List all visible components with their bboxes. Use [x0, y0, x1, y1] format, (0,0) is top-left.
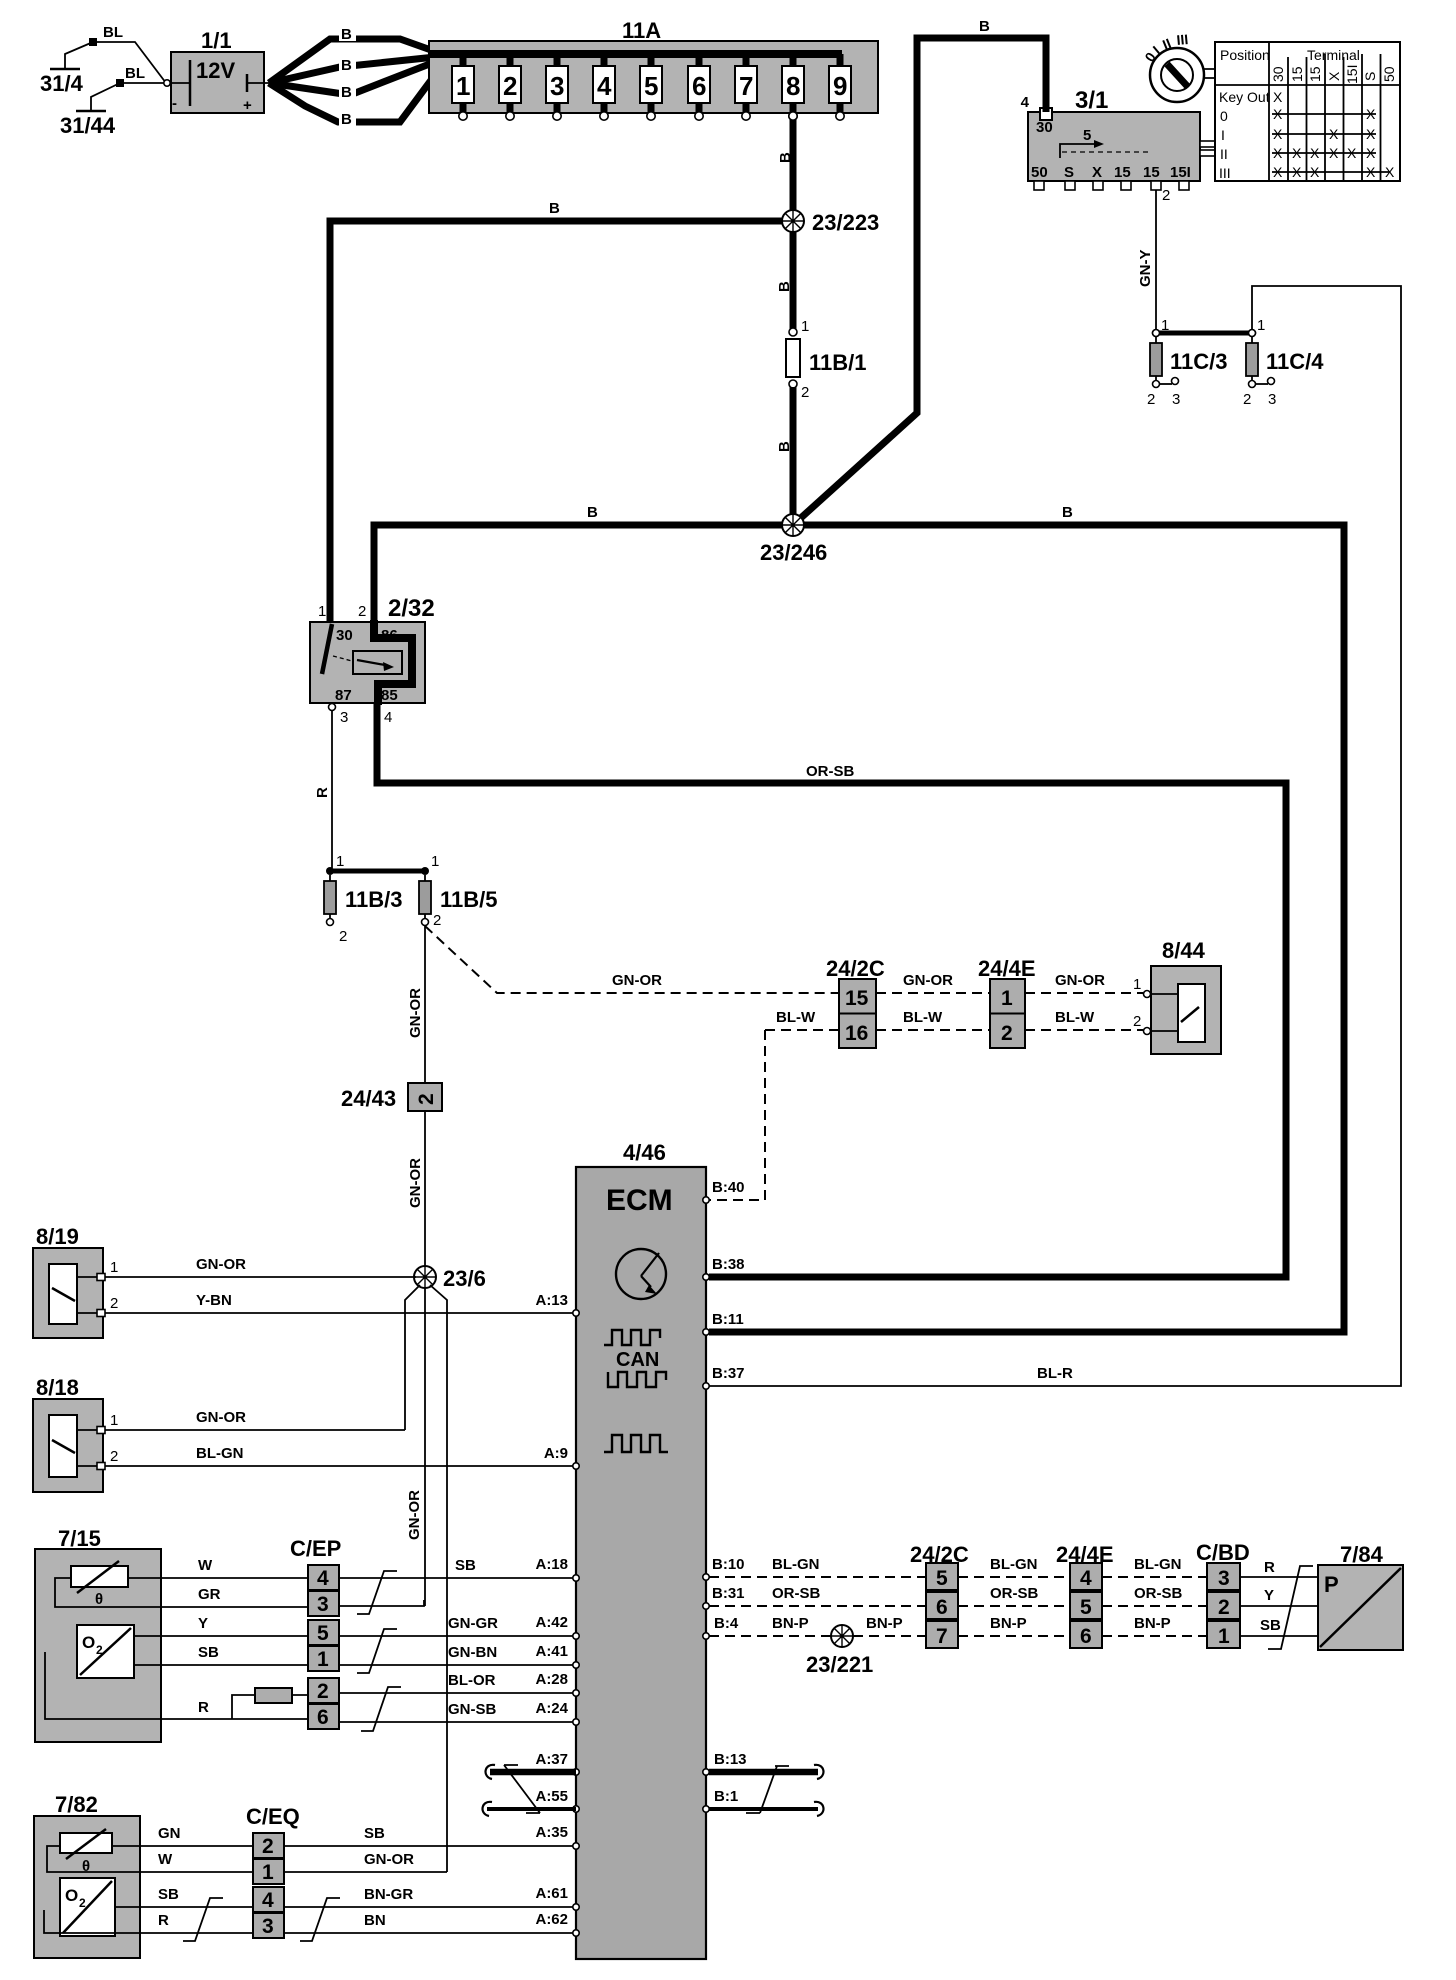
svg-text:6: 6 — [1080, 1625, 1092, 1648]
svg-text:7/84: 7/84 — [1340, 1542, 1384, 1567]
svg-text:9: 9 — [833, 71, 847, 101]
resistor bridge at C/EP 2 — [232, 1688, 308, 1719]
node 23/6 — [414, 1266, 436, 1288]
wire R to C/EP 6 — [161, 1718, 308, 1720]
svg-text:4: 4 — [262, 1889, 274, 1912]
svg-text:CAN: CAN — [616, 1349, 659, 1371]
relay coil winding path pin2 to pin4 — [374, 620, 412, 705]
connector C/BD (3/2/1) — [1196, 1540, 1250, 1648]
relay switch blade — [322, 624, 332, 674]
fuse 1 — [452, 54, 474, 120]
svg-text:A:13: A:13 — [535, 1292, 568, 1309]
svg-text:X: X — [1292, 145, 1302, 161]
wire OR-SB relay pin4 to ECM B:38 — [377, 704, 1286, 1277]
svg-text:85: 85 — [381, 687, 398, 704]
svg-text:1: 1 — [262, 1861, 274, 1884]
svg-text:4: 4 — [317, 1567, 329, 1590]
svg-text:X: X — [1329, 145, 1339, 161]
svg-text:B:37: B:37 — [712, 1365, 745, 1382]
svg-text:SB: SB — [455, 1557, 476, 1574]
svg-text:1: 1 — [110, 1259, 118, 1276]
svg-text:B:38: B:38 — [712, 1256, 745, 1273]
svg-text:15: 15 — [1307, 66, 1323, 82]
svg-text:GN-OR: GN-OR — [407, 988, 424, 1038]
svg-text:R: R — [314, 787, 331, 798]
wire bar 11B/3 to 11B/5 pin1 — [330, 869, 425, 874]
svg-text:X: X — [1326, 71, 1342, 81]
svg-text:Y: Y — [1264, 1587, 1274, 1604]
svg-text:BN-P: BN-P — [990, 1615, 1027, 1632]
svg-text:A:9: A:9 — [544, 1445, 568, 1462]
svg-text:23/6: 23/6 — [443, 1266, 486, 1291]
connector 24/2C (15/16) — [826, 956, 885, 1048]
svg-text:1: 1 — [318, 603, 326, 620]
svg-text:O: O — [65, 1886, 78, 1905]
svg-text:1: 1 — [431, 853, 439, 870]
svg-text:24/4E: 24/4E — [978, 956, 1036, 981]
svg-text:24/2C: 24/2C — [826, 956, 885, 981]
svg-text:BL-GN: BL-GN — [196, 1445, 244, 1462]
ECM pins A side — [573, 1310, 579, 1936]
position/terminal table — [1215, 42, 1400, 181]
wire Y-BN 8/19 pin2 to ECM A:13 — [105, 1312, 573, 1314]
svg-text:GN: GN — [158, 1825, 181, 1842]
svg-text:A:42: A:42 — [535, 1614, 568, 1631]
svg-text:2: 2 — [503, 71, 517, 101]
svg-text:BL: BL — [103, 24, 123, 41]
svg-text:GN-OR: GN-OR — [406, 1490, 423, 1540]
svg-text:16: 16 — [845, 1022, 868, 1045]
svg-text:GN-Y: GN-Y — [1137, 250, 1154, 288]
svg-text:4: 4 — [384, 709, 392, 726]
svg-text:θ: θ — [95, 1591, 103, 1608]
wire OR-SB dashed ECM B:31 to 24/2C 6 — [709, 1605, 926, 1607]
tabs to table — [1200, 141, 1215, 147]
wires C/BD to 7/84 — [1240, 1577, 1318, 1636]
node 23/223 — [782, 210, 804, 232]
svg-text:B: B — [776, 281, 793, 292]
svg-text:B:10: B:10 — [712, 1556, 745, 1573]
svg-text:Key Out: Key Out — [1219, 89, 1270, 105]
svg-text:11B/1: 11B/1 — [809, 350, 867, 375]
svg-text:X: X — [1385, 164, 1395, 180]
svg-text:III: III — [1176, 31, 1189, 48]
svg-text:OR-SB: OR-SB — [990, 1585, 1039, 1602]
svg-text:BN-P: BN-P — [772, 1615, 809, 1632]
wires dashed 24/4E to C/BD — [1102, 1577, 1207, 1636]
wire BL-W dashed down to ECM B:40 — [709, 1030, 765, 1200]
svg-text:A:35: A:35 — [535, 1824, 568, 1841]
3/1 terminal pins — [1034, 181, 1044, 190]
svg-text:0: 0 — [1220, 108, 1228, 124]
node 23/246 — [782, 514, 804, 536]
wire R to C/EQ 3 — [140, 1932, 253, 1934]
svg-text:W: W — [158, 1851, 173, 1868]
ECM 4/46 — [576, 1140, 706, 1959]
svg-text:3/1: 3/1 — [1075, 87, 1108, 114]
ignition switch 3/1 — [1021, 87, 1215, 190]
svg-text:30: 30 — [336, 627, 353, 644]
svg-text:SB: SB — [158, 1886, 179, 1903]
wire BL-W dashed row — [765, 1029, 839, 1031]
svg-text:X: X — [1310, 164, 1320, 180]
wire BL-R 11C/4 pin1 to ECM B:37 — [709, 286, 1401, 1386]
svg-text:C/EQ: C/EQ — [246, 1804, 300, 1829]
svg-text:BL-W: BL-W — [776, 1009, 816, 1026]
wires fanning below 23/6 — [405, 1285, 447, 1872]
svg-text:15I: 15I — [1344, 65, 1360, 84]
svg-text:12V: 12V — [196, 58, 235, 83]
svg-text:7: 7 — [739, 71, 753, 101]
svg-text:A:28: A:28 — [535, 1671, 568, 1688]
ECM CAN symbol — [604, 1330, 660, 1345]
svg-text:B: B — [587, 504, 598, 521]
wire GN-SB C/EP6 to ECM A:24 — [339, 1721, 573, 1723]
connector 24/2C (5/6/7) — [910, 1542, 969, 1648]
connector C/EQ — [246, 1804, 300, 1938]
svg-text:R: R — [1264, 1559, 1275, 1576]
svg-text:1: 1 — [317, 1648, 329, 1671]
svg-text:4: 4 — [597, 71, 612, 101]
svg-text:OR-SB: OR-SB — [772, 1585, 821, 1602]
svg-text:87: 87 — [335, 687, 352, 704]
svg-text:24/43: 24/43 — [341, 1086, 396, 1111]
wire GN-OR 11B/5 pin2 down to 24/43 and 23/6 — [424, 926, 426, 1268]
svg-text:2: 2 — [317, 1680, 329, 1703]
svg-text:A:41: A:41 — [535, 1643, 568, 1660]
pair break after C/EQ — [300, 1898, 340, 1941]
fuse 2 — [499, 54, 521, 120]
fuse 11C/4 — [1243, 317, 1324, 408]
svg-text:B: B — [1062, 504, 1073, 521]
svg-text:BL-W: BL-W — [903, 1009, 943, 1026]
svg-text:A:62: A:62 — [535, 1911, 568, 1928]
fuse 5 — [640, 54, 662, 120]
svg-text:6: 6 — [936, 1596, 948, 1619]
svg-text:BL-W: BL-W — [1055, 1009, 1095, 1026]
svg-text:II: II — [1220, 146, 1228, 162]
svg-text:B: B — [979, 18, 990, 35]
wire battery to fusebox (4 x B) — [269, 25, 446, 128]
svg-text:O: O — [82, 1633, 95, 1652]
svg-text:GN-OR: GN-OR — [196, 1256, 246, 1273]
svg-text:3: 3 — [550, 71, 564, 101]
fuse 9 — [829, 54, 851, 120]
svg-text:X: X — [1366, 106, 1376, 122]
7/15 O2 cell — [77, 1625, 134, 1678]
relay coil — [353, 651, 402, 674]
fuse 11C/3 — [1147, 317, 1228, 408]
svg-text:1: 1 — [1218, 1625, 1230, 1648]
svg-text:15I: 15I — [1170, 164, 1191, 181]
svg-text:2: 2 — [1133, 1013, 1141, 1030]
svg-text:GN-BN: GN-BN — [448, 1644, 497, 1661]
ground 31/4 — [40, 24, 166, 96]
wire SB C/EP4 to ECM A:18 — [339, 1577, 573, 1579]
svg-text:15: 15 — [1114, 164, 1131, 181]
svg-text:3: 3 — [317, 1593, 329, 1616]
wire GN-OR dashed 24/2C to 24/4E — [876, 992, 990, 994]
svg-text:1: 1 — [336, 853, 344, 870]
svg-text:1: 1 — [801, 318, 809, 335]
svg-text:BL-GN: BL-GN — [1134, 1556, 1182, 1573]
svg-text:7/82: 7/82 — [55, 1792, 98, 1817]
svg-text:2: 2 — [801, 384, 809, 401]
svg-text:1: 1 — [1133, 976, 1141, 993]
svg-text:5: 5 — [317, 1622, 329, 1645]
svg-text:Position: Position — [1220, 47, 1270, 63]
pair break before C/EQ — [183, 1898, 223, 1941]
svg-text:C/EP: C/EP — [290, 1536, 341, 1561]
pair break before 7/84 — [1268, 1566, 1313, 1649]
svg-text:1: 1 — [456, 71, 470, 101]
ECM clock symbol — [616, 1249, 666, 1299]
svg-text:B: B — [776, 441, 793, 452]
fuse 7 — [735, 54, 757, 120]
svg-text:X: X — [1329, 126, 1339, 142]
ECM pins B side — [703, 1197, 709, 1812]
svg-text:11B/5: 11B/5 — [440, 887, 498, 912]
svg-text:X: X — [1273, 89, 1283, 105]
svg-text:31/4: 31/4 — [40, 71, 84, 96]
svg-text:2: 2 — [262, 1835, 274, 1858]
svg-text:B:31: B:31 — [712, 1585, 745, 1602]
key symbol — [1141, 31, 1216, 102]
svg-text:-: - — [172, 95, 177, 112]
svg-text:A:61: A:61 — [535, 1885, 568, 1902]
relay 2/32 — [310, 595, 435, 726]
svg-text:6: 6 — [317, 1706, 329, 1729]
svg-text:X: X — [1310, 145, 1320, 161]
wire GN-OR dashed 11B/5 to 24/2C pin15 — [425, 926, 839, 993]
svg-text:GN-OR: GN-OR — [407, 1158, 424, 1208]
wire R relay pin3 to 11B/3 — [331, 711, 333, 868]
svg-text:2/32: 2/32 — [388, 595, 435, 622]
svg-text:BL-GN: BL-GN — [772, 1556, 820, 1573]
svg-text:BN-P: BN-P — [1134, 1615, 1171, 1632]
wire GN to C/EQ 2 — [140, 1845, 253, 1847]
svg-text:X: X — [1347, 145, 1357, 161]
wire GN-OR C/EQ1 up to 23/6 branch — [284, 1871, 447, 1873]
svg-text:A:24: A:24 — [535, 1700, 568, 1717]
svg-text:7/15: 7/15 — [58, 1526, 101, 1551]
svg-text:P: P — [1324, 1572, 1339, 1597]
svg-text:BN-GR: BN-GR — [364, 1886, 413, 1903]
svg-text:50: 50 — [1031, 164, 1048, 181]
wire BL-OR C/EP2 to ECM A:28 — [339, 1692, 573, 1694]
svg-text:2: 2 — [1218, 1596, 1230, 1619]
svg-text:2: 2 — [1243, 391, 1251, 408]
svg-text:11A: 11A — [622, 18, 661, 43]
svg-text:50: 50 — [1381, 66, 1397, 82]
svg-text:R: R — [198, 1699, 209, 1716]
svg-text:X: X — [1366, 145, 1376, 161]
fuse 6 — [688, 54, 710, 120]
svg-text:11C/3: 11C/3 — [1170, 349, 1228, 374]
wire B diagonal 23/246 up to 3/1 pin 4 — [793, 38, 1046, 525]
svg-text:BL-R: BL-R — [1037, 1365, 1073, 1382]
svg-text:GN-OR: GN-OR — [196, 1409, 246, 1426]
svg-text:GN-OR: GN-OR — [364, 1851, 414, 1868]
svg-text:4: 4 — [1080, 1567, 1092, 1590]
wire BL-GN 8/18 pin2 to ECM A:9 — [105, 1465, 573, 1467]
fuse 11B/5 — [419, 853, 498, 929]
fuse 11B/1 — [786, 318, 867, 401]
svg-text:5: 5 — [1083, 127, 1091, 144]
svg-text:3: 3 — [1218, 1567, 1230, 1590]
svg-text:X: X — [1273, 145, 1283, 161]
svg-text:B:4: B:4 — [714, 1615, 739, 1632]
svg-text:S: S — [1064, 164, 1074, 181]
svg-text:X: X — [1366, 126, 1376, 142]
svg-text:OR-SB: OR-SB — [806, 763, 855, 780]
svg-text:2: 2 — [79, 1896, 86, 1910]
sensor 8/19 — [33, 1224, 118, 1338]
svg-text:2: 2 — [110, 1295, 118, 1312]
svg-text:8/18: 8/18 — [36, 1375, 79, 1400]
svg-text:A:37: A:37 — [535, 1751, 568, 1768]
svg-text:1: 1 — [1001, 987, 1013, 1010]
svg-text:8: 8 — [786, 71, 800, 101]
svg-text:2: 2 — [415, 1093, 438, 1105]
bus bar — [429, 50, 842, 58]
wire GN-GR C/EP5 to ECM A:42 — [339, 1635, 573, 1637]
svg-text:X: X — [1273, 106, 1283, 122]
sensor 8/18 — [33, 1375, 118, 1492]
svg-text:S: S — [1362, 72, 1378, 81]
svg-text:8/44: 8/44 — [1162, 938, 1206, 963]
svg-text:BN-P: BN-P — [866, 1615, 903, 1632]
wire SB to C/EP 1 — [161, 1664, 308, 1666]
wire GN-OR C/EP3 up to 23/6 — [339, 1600, 424, 1606]
svg-text:3: 3 — [262, 1915, 274, 1938]
wire B horizontal to relay (node 23/223 to 2/32 pin1) — [330, 221, 793, 622]
wire B 11B/1 pin2 down to 23/246 — [790, 387, 797, 525]
svg-text:X: X — [1273, 126, 1283, 142]
svg-text:31/44: 31/44 — [60, 113, 116, 138]
heated oxygen sensor 7/82 — [34, 1792, 140, 1958]
svg-text:W: W — [198, 1557, 213, 1574]
svg-text:11B/3: 11B/3 — [345, 887, 403, 912]
svg-text:15: 15 — [1289, 66, 1305, 82]
svg-text:BL-GN: BL-GN — [990, 1556, 1038, 1573]
svg-text:GN-SB: GN-SB — [448, 1701, 497, 1718]
wire GN-Y from 3/1 pin 2 — [1137, 187, 1170, 330]
wire SB to C/EQ 4 — [140, 1906, 253, 1908]
svg-text:X: X — [1292, 164, 1302, 180]
svg-text:2: 2 — [1162, 187, 1170, 204]
svg-text:2: 2 — [96, 1643, 103, 1657]
svg-text:8/19: 8/19 — [36, 1224, 79, 1249]
fuel pump 7/84 — [1318, 1542, 1403, 1650]
svg-text:15: 15 — [845, 987, 869, 1010]
svg-text:3: 3 — [340, 709, 348, 726]
svg-text:OR-SB: OR-SB — [1134, 1585, 1183, 1602]
svg-text:B:13: B:13 — [714, 1751, 747, 1768]
svg-text:11C/4: 11C/4 — [1266, 349, 1324, 374]
svg-text:4/46: 4/46 — [623, 1140, 666, 1165]
svg-text:7: 7 — [936, 1625, 948, 1648]
wire GN-OR 8/19 pin1 to 23/6 — [105, 1276, 416, 1278]
svg-text:2: 2 — [110, 1448, 118, 1465]
svg-text:B:11: B:11 — [712, 1311, 744, 1328]
svg-text:5: 5 — [1080, 1596, 1092, 1619]
heated oxygen sensor 7/15 — [35, 1526, 161, 1742]
svg-text:2: 2 — [339, 928, 347, 945]
svg-text:B: B — [341, 84, 352, 101]
svg-text:Y-BN: Y-BN — [196, 1292, 232, 1309]
wire GR to C/EP 3 — [161, 1606, 308, 1608]
svg-text:B: B — [341, 26, 352, 43]
wire SB C/EQ2 to ECM A:35 — [284, 1845, 573, 1847]
7/82 O2 cell — [60, 1878, 115, 1936]
wire BN C/EQ3 to ECM A:62 — [284, 1932, 573, 1934]
svg-text:GR: GR — [198, 1586, 221, 1603]
svg-text:SB: SB — [364, 1825, 385, 1842]
svg-text:1/1: 1/1 — [201, 28, 232, 53]
svg-text:BN: BN — [364, 1912, 386, 1929]
fuse 11B/3 — [324, 853, 403, 945]
svg-text:3: 3 — [1172, 391, 1180, 408]
svg-text:BL-OR: BL-OR — [448, 1672, 496, 1689]
connector 24/4E (1/2) — [978, 956, 1036, 1048]
svg-text:A:18: A:18 — [535, 1556, 568, 1573]
wire GN-BN C/EP1 to ECM A:41 — [339, 1664, 573, 1666]
CAN pair B:13 / B:1 — [709, 1751, 823, 1816]
svg-text:A:55: A:55 — [535, 1788, 568, 1805]
wire BN-P dashed ECM B:4 to 24/2C 7 — [709, 1635, 926, 1637]
fuse box 11A — [429, 18, 878, 120]
svg-text:SB: SB — [198, 1644, 219, 1661]
connector 24/43 — [341, 1083, 442, 1111]
svg-text:+: + — [243, 97, 252, 114]
svg-text:Terminal: Terminal — [1307, 47, 1360, 63]
svg-text:2: 2 — [433, 912, 441, 929]
svg-text:I: I — [1221, 127, 1225, 143]
relay pin 3 — [329, 704, 336, 711]
wire B horizontal row y=525: relay pin2 up, right to ECM B:11 — [374, 525, 1344, 1332]
svg-text:23/221: 23/221 — [806, 1652, 873, 1677]
wires dashed 24/2C to 24/4E — [958, 1577, 1070, 1636]
oxygen sensor preheat 8/44 — [1144, 938, 1222, 1054]
connector C/EP — [290, 1536, 341, 1729]
svg-text:3: 3 — [1268, 391, 1276, 408]
svg-text:X: X — [1366, 164, 1376, 180]
7/82 heater element — [60, 1833, 112, 1853]
svg-text:B: B — [777, 152, 794, 163]
svg-text:X: X — [1092, 164, 1102, 181]
svg-text:6: 6 — [692, 71, 706, 101]
fuse 3 — [546, 54, 568, 120]
svg-text:C/BD: C/BD — [1196, 1540, 1250, 1565]
svg-text:GN-OR: GN-OR — [903, 972, 953, 989]
wire Y to C/EP 5 — [161, 1635, 308, 1637]
svg-text:2: 2 — [1147, 391, 1155, 408]
fuse 8 — [782, 54, 804, 120]
wire W to C/EP 4 — [161, 1577, 308, 1579]
ground 31/44 — [60, 65, 166, 138]
pair break symbols after C/EP — [357, 1571, 397, 1614]
battery 1/1 12V — [164, 28, 272, 114]
svg-text:30: 30 — [1036, 119, 1053, 136]
svg-text:SB: SB — [1260, 1617, 1281, 1634]
svg-text:B:1: B:1 — [714, 1788, 738, 1805]
connector 24/4E (4/5/6) — [1056, 1542, 1114, 1648]
fuse 4 — [593, 54, 615, 120]
wire BN-GR C/EQ4 to ECM A:61 — [284, 1906, 573, 1908]
node 23/221 — [831, 1625, 853, 1647]
svg-text:GN-GR: GN-GR — [448, 1615, 498, 1632]
